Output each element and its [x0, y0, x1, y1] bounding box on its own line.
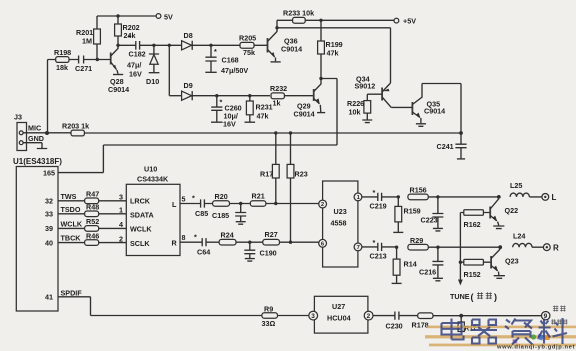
node Q36 collector junction [275, 26, 278, 29]
pin 3 [309, 311, 318, 320]
wire vertical to D9 row [168, 45, 170, 95]
svg-text:C219: C219 [370, 202, 387, 211]
resistor R20 [213, 201, 230, 207]
pin 41 SPDIF [58, 297, 91, 316]
resistor R29 [408, 244, 428, 250]
node R152 junction [459, 261, 462, 264]
resistor R201 [96, 16, 98, 60]
svg-text:J3: J3 [14, 113, 22, 122]
svg-text:16V: 16V [223, 120, 236, 129]
transistor Q28 [110, 53, 112, 65]
node R199 bottom junction [319, 77, 322, 80]
node Q22 collector junction [497, 195, 501, 199]
svg-text:L: L [172, 200, 177, 209]
svg-text:47k: 47k [327, 49, 339, 58]
node R17 top junction [274, 131, 277, 134]
svg-text:R20: R20 [215, 192, 228, 201]
svg-text:3: 3 [311, 313, 315, 320]
transistor Q34 [381, 88, 383, 101]
pin 33 TSDO [58, 213, 126, 215]
capacitor C271 [79, 56, 98, 64]
svg-text:7: 7 [357, 245, 360, 251]
svg-text:R156: R156 [410, 186, 427, 195]
svg-text:R232: R232 [270, 84, 287, 93]
transistor Q22 [489, 207, 491, 219]
capacitor C190 [244, 242, 255, 258]
svg-text:C9014: C9014 [294, 110, 315, 119]
pin 1 [354, 193, 362, 201]
svg-text:3: 3 [119, 193, 123, 202]
svg-text:R17: R17 [260, 170, 273, 179]
svg-text:U10: U10 [144, 165, 157, 174]
node C223 junction [436, 195, 439, 198]
svg-text:C185: C185 [212, 211, 229, 220]
resistor R199 [320, 20, 322, 78]
svg-text:5: 5 [182, 195, 186, 204]
svg-text:TBCK: TBCK [61, 234, 82, 243]
svg-text:L25: L25 [510, 181, 522, 190]
svg-text:C9014: C9014 [281, 45, 302, 54]
svg-text:C213: C213 [370, 252, 387, 261]
svg-text:16V: 16V [129, 70, 142, 79]
svg-text:C85: C85 [195, 209, 208, 218]
svg-text:R233 10k: R233 10k [283, 9, 314, 18]
node +5V terminal [394, 18, 399, 23]
node MIC junction [45, 131, 49, 135]
pin 2 [364, 311, 373, 320]
node C185 junction [239, 202, 242, 205]
diode D8 [182, 41, 192, 50]
node C190 junction [248, 241, 251, 244]
node R159 junction [397, 195, 400, 198]
watermark tan bars [425, 326, 576, 347]
svg-text:R21: R21 [252, 192, 265, 201]
svg-text:U1(ES4318F): U1(ES4318F) [13, 157, 62, 166]
resistor R24 [219, 239, 236, 245]
svg-text:C271: C271 [75, 64, 92, 73]
node R23 top junction [289, 131, 292, 134]
node R202 top junction [116, 14, 119, 17]
node R14 junction [395, 246, 398, 249]
resistor R48 [85, 211, 99, 217]
svg-text:33: 33 [45, 210, 53, 219]
capacitor C219 [362, 193, 398, 201]
svg-text:R24: R24 [221, 231, 234, 240]
svg-text:*: * [192, 194, 195, 203]
svg-text:1M: 1M [82, 37, 92, 46]
inductor L24 [513, 243, 544, 247]
svg-text:5V: 5V [164, 13, 173, 22]
node R231 junction [248, 94, 251, 97]
transistor Q23 [490, 256, 492, 269]
svg-text:C168: C168 [222, 56, 239, 65]
svg-text:C182: C182 [129, 50, 146, 59]
pin 2 [319, 200, 327, 208]
svg-text:C216: C216 [419, 268, 436, 277]
svg-text:C190: C190 [260, 249, 277, 258]
capacitor C85 [201, 199, 213, 207]
IC U27 HCU04 box [314, 296, 368, 333]
svg-text:R48: R48 [86, 203, 99, 212]
node R199 top junction [319, 19, 322, 22]
resistor R179 [460, 316, 462, 322]
svg-text:*: * [220, 98, 223, 107]
svg-text:TWS: TWS [61, 192, 77, 201]
capacitor C216 [432, 247, 443, 278]
wire feedback to pin165 [58, 79, 337, 173]
svg-text:2: 2 [367, 313, 371, 320]
svg-text:TSDO: TSDO [61, 205, 81, 214]
svg-text:C9014: C9014 [424, 107, 445, 116]
resistor R232 [271, 93, 284, 99]
pin 8 R out [180, 241, 202, 243]
node Q28 base junction [96, 58, 99, 61]
node Q23 collector junction [498, 245, 502, 249]
svg-text:47μ/: 47μ/ [127, 61, 141, 70]
wire +5V rail right [277, 19, 394, 21]
capacitor C241 [455, 133, 466, 158]
svg-text:www.dianqi-yb.gdjp.net: www.dianqi-yb.gdjp.net [496, 345, 575, 351]
svg-text:R9: R9 [264, 305, 273, 314]
resistor R198 [48, 59, 79, 61]
svg-text:D10: D10 [146, 77, 159, 86]
resistor R47 [85, 198, 99, 204]
svg-text:C64: C64 [197, 248, 210, 257]
node R179 junction [459, 314, 463, 318]
transistor Q35 [411, 102, 413, 115]
diode D9 [169, 95, 181, 97]
svg-text:R: R [553, 244, 559, 253]
svg-text:4558: 4558 [331, 219, 347, 228]
node R17 bottom junction [274, 202, 277, 205]
diode D10 [149, 45, 159, 72]
capacitor C182 [118, 41, 154, 50]
svg-text:R162: R162 [464, 220, 481, 229]
node 5V terminal [156, 14, 161, 19]
svg-text:R205: R205 [239, 34, 256, 43]
op-amp U23 4558 box [323, 181, 358, 267]
svg-text:40: 40 [45, 239, 53, 248]
node D8 left junction [168, 44, 171, 47]
svg-text:2: 2 [321, 202, 324, 208]
wire Q35 collector to node [422, 84, 461, 134]
svg-text:MIC: MIC [28, 124, 41, 133]
capacitor C260 [211, 96, 222, 122]
svg-text:*: * [128, 33, 131, 42]
svg-text:R198: R198 [54, 48, 71, 57]
svg-text:Q23: Q23 [505, 257, 519, 266]
node L output jack [542, 194, 549, 201]
IC U10 CS4334K box [126, 184, 180, 255]
svg-text:8: 8 [182, 233, 186, 242]
svg-text:GND: GND [28, 134, 44, 143]
watermark char zi [505, 319, 533, 345]
svg-text:L24: L24 [513, 232, 525, 241]
svg-text:S9012: S9012 [355, 82, 376, 91]
transistor Q36 [267, 38, 269, 53]
node pin 9 connector [542, 312, 550, 320]
svg-text:C9014: C9014 [108, 85, 129, 94]
node R23 bottom junction [289, 241, 292, 244]
svg-text:47k: 47k [257, 112, 269, 121]
svg-text:): ) [494, 292, 497, 302]
svg-text:41: 41 [45, 293, 53, 302]
pin 7 [354, 243, 362, 251]
svg-text:32: 32 [45, 197, 53, 206]
resistor R203 [71, 130, 84, 136]
connector J3 [17, 123, 27, 151]
resistor R205 [211, 44, 268, 46]
pin 40 TBCK [58, 242, 126, 244]
svg-text:R152: R152 [464, 270, 481, 279]
svg-text:33Ω: 33Ω [262, 319, 276, 328]
watermark char dian [442, 319, 464, 340]
capacitor C213 [362, 243, 396, 251]
svg-text:*: * [373, 238, 376, 247]
svg-text:R52: R52 [86, 217, 99, 226]
svg-text:+5V: +5V [403, 17, 416, 26]
svg-text:R27: R27 [265, 230, 278, 239]
node C216 junction [436, 246, 439, 249]
resistor R178 [418, 313, 433, 319]
node C260 junction [215, 94, 218, 97]
svg-text:R46: R46 [86, 232, 99, 241]
pin 5 L out [180, 203, 201, 205]
capacitor C230 [373, 312, 418, 320]
svg-text:R231: R231 [256, 103, 273, 112]
pin 6 [319, 239, 327, 247]
resistor R233 [293, 17, 306, 23]
wire MIC row [23, 132, 461, 134]
capacitor C168 [205, 45, 216, 72]
svg-text:C230: C230 [386, 322, 403, 331]
resistor R231 [249, 96, 251, 122]
svg-text:L: L [552, 193, 557, 202]
svg-text:C223: C223 [421, 216, 438, 225]
capacitor C64 [202, 238, 219, 246]
node R output jack [543, 244, 550, 251]
transistor Q29 [313, 89, 315, 101]
svg-text:SPDIF: SPDIF [61, 289, 83, 298]
resistor R226 [366, 94, 368, 119]
node C168 junction [209, 44, 212, 47]
wire Q36 collector row C [277, 20, 391, 83]
svg-text:WCLK: WCLK [61, 220, 83, 229]
svg-text:4: 4 [119, 220, 123, 229]
svg-text:1k: 1k [273, 99, 281, 108]
svg-text:C241: C241 [437, 142, 454, 151]
resistor R52 [85, 226, 99, 232]
resistor R46 [85, 240, 99, 246]
resistor R23 [290, 133, 292, 242]
pin 39 WCLK [58, 227, 126, 229]
svg-text:D9: D9 [184, 81, 193, 90]
resistor R162 [460, 212, 490, 214]
svg-text:18k: 18k [56, 63, 68, 72]
resistor R27 [263, 239, 280, 245]
resistor R21 [250, 201, 266, 207]
svg-text:LRCK: LRCK [130, 197, 151, 206]
svg-text:165: 165 [43, 169, 55, 178]
resistor R17 [275, 133, 277, 204]
svg-text:U23: U23 [334, 207, 347, 216]
svg-text:R: R [172, 239, 178, 248]
resistor R14 [396, 247, 398, 283]
svg-text:47μ/50V: 47μ/50V [221, 66, 248, 75]
capacitor C185 [235, 204, 246, 222]
svg-text:(: ( [471, 292, 474, 302]
svg-text:U27: U27 [332, 302, 345, 311]
svg-text:R29: R29 [410, 236, 423, 245]
svg-text:R14: R14 [404, 260, 417, 269]
ground J3 GND [23, 143, 47, 149]
svg-text:39: 39 [45, 224, 53, 233]
wire TUNE line [459, 213, 461, 281]
node Q28 collector junction [116, 44, 119, 47]
svg-text:2: 2 [119, 235, 123, 244]
wire SPDIF row [91, 315, 262, 317]
svg-text:1: 1 [119, 206, 123, 215]
resistor R156 [408, 194, 428, 200]
node C241 junction [459, 131, 463, 135]
svg-text:CS4334K: CS4334K [137, 175, 169, 184]
svg-text:R159: R159 [404, 207, 421, 216]
svg-text:75k: 75k [243, 48, 255, 57]
IC U1 ES4318F box [16, 167, 58, 312]
label shuma board [551, 306, 567, 325]
resistor R202 [117, 16, 119, 45]
svg-text:R47: R47 [86, 190, 99, 199]
svg-text:TUNE: TUNE [450, 292, 470, 301]
wire left vertical to MIC [47, 60, 49, 134]
resistor R152 [460, 261, 491, 263]
svg-text:R178: R178 [412, 321, 429, 330]
svg-text:SDATA: SDATA [130, 211, 154, 220]
watermark char liao [539, 318, 568, 344]
svg-text:*: * [194, 233, 197, 242]
svg-text:SCLK: SCLK [130, 239, 150, 248]
wire row D to D8 [154, 44, 182, 46]
svg-text:R23: R23 [295, 170, 308, 179]
resistor R159 [397, 197, 399, 232]
svg-text:HCU04: HCU04 [327, 314, 351, 323]
inductor L25 [510, 193, 541, 197]
svg-text:*: * [373, 188, 376, 197]
capacitor C223 [432, 197, 443, 228]
watermark char qi [471, 320, 497, 344]
node D10 junction [152, 44, 155, 47]
resistor R9 [262, 313, 278, 319]
wire +5V rail top-left [97, 15, 156, 17]
svg-text:D8: D8 [184, 31, 193, 40]
svg-text:WCLK: WCLK [130, 225, 152, 234]
svg-text:R203 1k: R203 1k [62, 122, 89, 131]
pin 32 TWS [58, 200, 126, 202]
svg-text:Q22: Q22 [505, 206, 519, 215]
svg-text:*: * [214, 47, 217, 56]
svg-text:10k: 10k [349, 108, 361, 117]
watermark icons [531, 334, 536, 339]
